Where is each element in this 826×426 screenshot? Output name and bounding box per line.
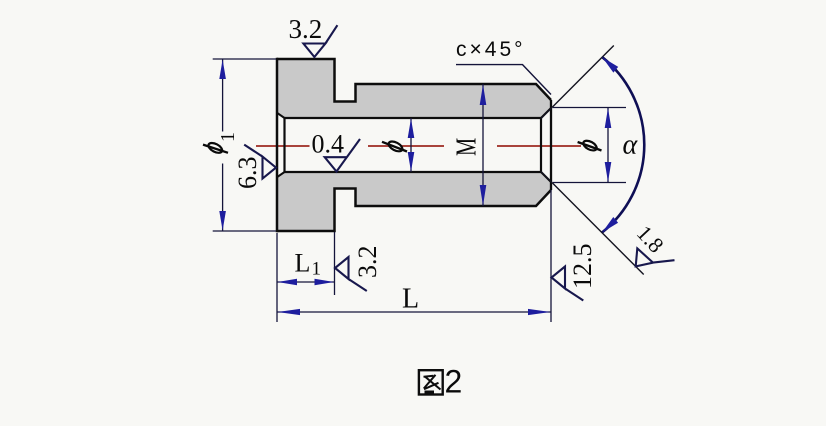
dimension L arrow right (528, 309, 551, 315)
roughness 3.2 bottom symbol (335, 257, 367, 291)
roughness 6.3 symbol (244, 145, 276, 179)
bore bottom edge (285, 171, 542, 173)
part section bottom wall fill (277, 172, 551, 231)
svg-text:0.4: 0.4 (312, 130, 345, 159)
head left face (276, 58, 279, 232)
dimension phi right top extension line (553, 107, 626, 109)
dimension phi bore arrow down (408, 152, 415, 172)
dimension phi1 bottom extension line (213, 230, 276, 232)
dimension L line (277, 311, 551, 313)
dimension phi right bottom extension line (553, 182, 626, 184)
label phi1 ellipse (207, 141, 224, 155)
left countersink top diagonal (277, 113, 285, 118)
part section top wall fill (277, 59, 551, 118)
label phi right ellipse (582, 139, 599, 153)
svg-text:L: L (402, 284, 419, 315)
roughness 0.4 symbol (325, 139, 360, 172)
dimension L left extension line (276, 233, 278, 322)
dimension phi right arrow up (605, 108, 612, 128)
label phi right slash (578, 142, 602, 151)
svg-text:c×45°: c×45° (456, 38, 526, 61)
svg-text:1: 1 (312, 259, 322, 280)
cone extension line bottom (541, 172, 644, 275)
red centerline (256, 145, 581, 147)
svg-text:3.2: 3.2 (289, 14, 323, 44)
right countersink top diagonal (541, 108, 551, 118)
dimension L1 arrow right (315, 279, 335, 285)
right countersink edge line (540, 118, 542, 172)
svg-text:3.2: 3.2 (353, 246, 382, 279)
part outline top profile (277, 59, 551, 102)
svg-text:12.5: 12.5 (568, 244, 597, 290)
dimension phi1 line (222, 59, 224, 132)
figure title glyph tu box (419, 370, 443, 394)
label phi bore slash (382, 142, 407, 152)
arc arrow bottom (602, 217, 618, 232)
part outline bottom profile (277, 189, 551, 232)
roughness 3.2 top symbol (303, 25, 337, 57)
roughness 1.8 symbol (636, 248, 675, 266)
chamfer leader line (456, 65, 551, 95)
svg-text:1: 1 (217, 132, 239, 142)
dimension phi right arrow down (605, 162, 612, 182)
dimension phi1 top extension line (213, 58, 276, 60)
svg-text:M: M (452, 138, 483, 156)
bore top edge (285, 117, 542, 119)
figure title glyph tu bottom stroke (425, 391, 435, 394)
dimension L1 arrow left (278, 279, 298, 285)
dimension phi1 arrow down (219, 211, 226, 231)
left countersink edge line (283, 118, 285, 172)
arc arrow top (602, 57, 618, 72)
svg-text:L: L (295, 249, 311, 278)
dimension L right extension line (550, 190, 552, 322)
dimension M arrow up (480, 85, 487, 106)
dimension phi bore arrow up (408, 119, 415, 139)
dimension phi1 arrow up (219, 60, 226, 80)
dimension phi bore line (410, 118, 412, 172)
dimension L1 line (277, 281, 335, 283)
right countersink bottom diagonal (541, 172, 551, 182)
dimension M line (482, 84, 484, 206)
dimension L1 right extension line (334, 232, 336, 295)
left countersink bottom diagonal (277, 172, 285, 177)
end face (550, 100, 552, 190)
roughness 12.5 symbol (552, 267, 584, 301)
label phi bore ellipse (387, 139, 404, 153)
angle alpha arc (602, 57, 644, 232)
dimension L arrow left (278, 309, 301, 315)
svg-text:2: 2 (445, 363, 463, 399)
svg-text:6.3: 6.3 (233, 157, 262, 190)
cone extension line top (541, 46, 614, 119)
svg-text:α: α (623, 130, 639, 161)
label phi1 slash (203, 145, 228, 153)
dimension M arrow down (480, 185, 487, 206)
dimension phi right line (607, 108, 609, 183)
